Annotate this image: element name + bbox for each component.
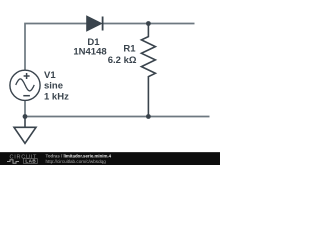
svg-text:LAB: LAB [25,159,36,164]
resistor R1 [141,24,155,117]
diode D1 [87,17,103,31]
svg-text:R1: R1 [123,44,136,55]
node junction bottom of R1 [146,114,151,119]
voltage source V1 [10,70,40,100]
wire from V1 top up and right to diode anode [25,24,87,71]
svg-text:sine: sine [44,81,63,92]
svg-text:6.2 kΩ: 6.2 kΩ [108,55,137,66]
wire bottom rail from V1 bottom to right end [25,100,210,116]
svg-text:1N4148: 1N4148 [73,47,106,58]
ground [14,117,36,144]
svg-text:http://circuitlab.com/c/wbsdqg: http://circuitlab.com/c/wbsdqg [46,159,107,164]
CircuitLab logo: waveform [7,160,19,164]
node junction at ground [23,114,28,119]
wire from diode cathode to right end [103,23,195,25]
CircuitLab logo: LAB box [24,159,38,164]
footer bar [0,152,220,165]
svg-text:V1: V1 [44,70,56,81]
node junction top of R1 [146,21,151,26]
svg-text:1 kHz: 1 kHz [44,91,69,102]
